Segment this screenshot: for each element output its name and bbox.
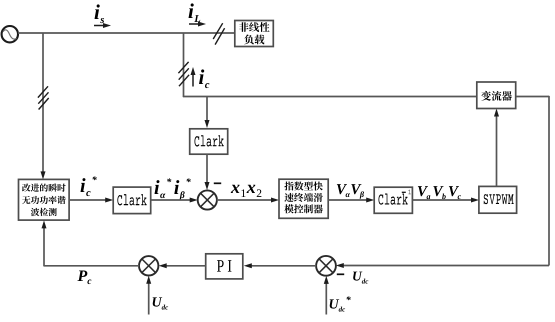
three-phase slash marks on left tap [38,86,49,109]
minus sign at multiplier M1 [214,182,221,184]
wire: M3 to PI [244,263,316,268]
label P_c [77,271,91,285]
wire: compensation branch down [183,33,185,97]
label i_c* [81,176,97,196]
multiplier junction M2 [139,256,158,275]
AC source G1 [2,26,18,42]
box: improved instantaneous reactive power harmonic detection (改进的瞬时无功功率谐波检测) [19,179,70,220]
wire: converter feedback right [516,96,549,98]
wire: supply tap down to detector [41,33,46,179]
label i_alpha* i_beta* [155,178,191,200]
box: PI regulator U6 [206,254,243,279]
wire: U_dc measured input [146,276,151,315]
wire: M2 output to detector [42,220,140,266]
wire: tap down to Clark [205,97,210,129]
box: Clark transform U2 [190,129,228,154]
minus sign at M3 [337,273,344,275]
box: exponential fast terminal sliding-mode controller (指数型快速终端滑模控制器) [279,179,328,218]
label i_L with arrow [189,3,206,26]
box: nonlinear load (非线性负载) [235,21,273,47]
wire: Clark to multiplier [205,154,210,190]
label i_s with arrow [94,4,111,28]
summing junction M3 [316,256,336,276]
wire: Clark2 to multiplier [151,198,198,203]
wire: M1 to sliding-mode controller [217,198,279,203]
box: inverse Clark transform U4 [374,187,412,213]
three-phase slash marks on load wire [213,23,224,44]
label V_a V_b V_c [418,186,461,199]
wire: PI to multiplier M2 [159,263,206,268]
label x1 x2 [231,185,262,197]
wire: inverse Clark to SVPWM [412,198,479,203]
label U_dc measured [153,297,168,309]
wire: SVPWM to converter [494,109,499,187]
label U_dc at M3 [353,272,368,284]
label i_c with up arrow [191,67,210,88]
wire: U_dc* reference input [324,276,329,315]
wire: branch to converter [183,96,477,98]
wire: right rail down [548,96,550,266]
wire: source bus [18,32,235,34]
wire: controller to inverse Clark [328,198,374,203]
wire: detector to Clark2 [69,198,113,203]
label V_alpha V_beta [337,184,364,199]
three-phase slash marks on compensation branch [178,62,189,86]
box: Clark transform U3 [113,187,151,214]
wire: rail to summer M3 [336,263,549,268]
label U_dc* reference [330,296,351,311]
box: SVPWM modulator U5 [479,186,517,213]
multiplier junction M1 [198,190,217,209]
box: converter (变流器) [477,82,516,109]
